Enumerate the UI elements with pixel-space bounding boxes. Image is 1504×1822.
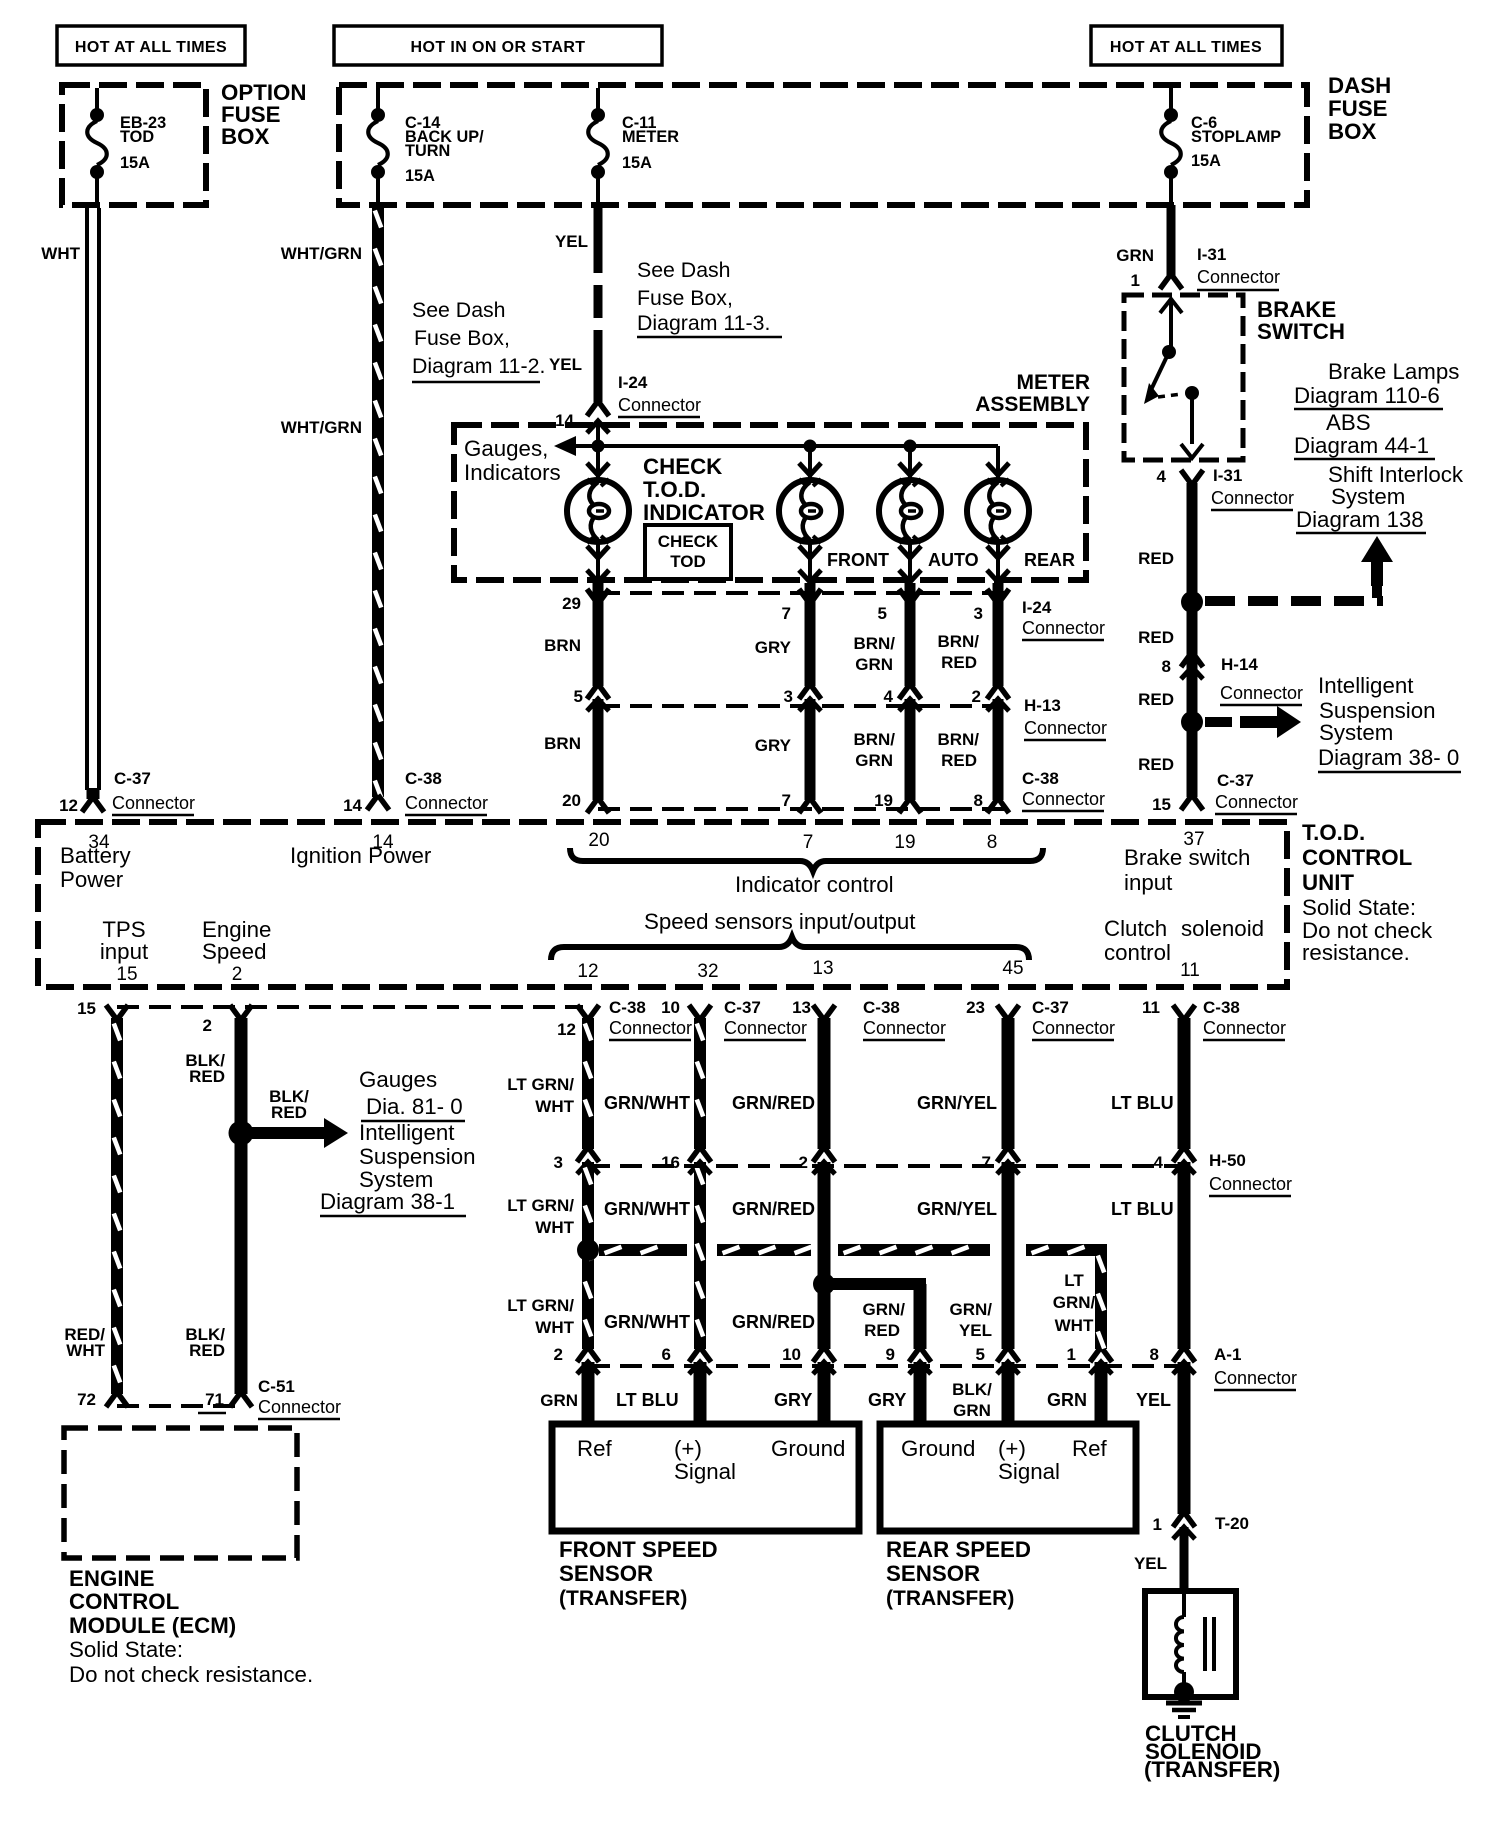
svg-text:C-38: C-38: [1022, 769, 1059, 788]
svg-text:FUSE: FUSE: [1328, 96, 1387, 121]
svg-text:TURN: TURN: [405, 142, 450, 160]
svg-text:WHT/GRN: WHT/GRN: [281, 244, 362, 263]
svg-text:C-37: C-37: [1032, 998, 1069, 1017]
svg-text:5: 5: [574, 687, 583, 706]
svg-text:4: 4: [1157, 467, 1167, 486]
svg-text:15: 15: [1152, 795, 1171, 814]
svg-text:7: 7: [782, 604, 791, 623]
svg-text:AUTO: AUTO: [928, 550, 979, 570]
svg-text:7: 7: [982, 1153, 991, 1172]
svg-text:Signal: Signal: [674, 1459, 736, 1484]
svg-text:2: 2: [554, 1345, 563, 1364]
svg-text:BRN: BRN: [544, 636, 581, 655]
svg-text:4: 4: [884, 687, 894, 706]
svg-text:Connector: Connector: [1215, 792, 1298, 812]
svg-text:20: 20: [588, 830, 609, 851]
svg-text:1: 1: [1131, 271, 1140, 290]
svg-text:8: 8: [987, 832, 998, 853]
svg-text:19: 19: [894, 832, 915, 853]
svg-text:REAR: REAR: [1024, 550, 1075, 570]
svg-text:control: control: [1104, 940, 1171, 965]
svg-text:C-51: C-51: [258, 1377, 295, 1396]
svg-text:FRONT SPEED: FRONT SPEED: [559, 1537, 718, 1562]
svg-text:LT: LT: [1064, 1271, 1084, 1290]
svg-text:FRONT: FRONT: [827, 550, 889, 570]
svg-text:Diagram 110-6: Diagram 110-6: [1294, 383, 1440, 408]
svg-text:GRN/RED: GRN/RED: [732, 1093, 815, 1113]
svg-text:(TRANSFER): (TRANSFER): [559, 1587, 687, 1610]
svg-text:GRY: GRY: [755, 638, 792, 657]
svg-text:CHECK: CHECK: [658, 532, 719, 551]
svg-text:Brake switch: Brake switch: [1124, 845, 1250, 870]
svg-text:5: 5: [976, 1345, 985, 1364]
svg-text:C-38: C-38: [863, 998, 900, 1017]
svg-text:45: 45: [1002, 958, 1023, 979]
svg-text:Connector: Connector: [258, 1397, 341, 1417]
svg-text:1: 1: [1153, 1515, 1162, 1534]
svg-text:Connector: Connector: [1022, 789, 1105, 809]
svg-text:Connector: Connector: [112, 793, 195, 813]
svg-text:4: 4: [1154, 1153, 1164, 1172]
svg-text:C-37: C-37: [724, 998, 761, 1017]
svg-text:Solid State:: Solid State:: [1302, 895, 1416, 920]
svg-text:6: 6: [662, 1345, 671, 1364]
svg-text:GRY: GRY: [868, 1390, 906, 1410]
svg-text:WHT: WHT: [535, 1318, 574, 1337]
svg-text:INDICATOR: INDICATOR: [643, 500, 765, 525]
svg-text:Intelligent: Intelligent: [359, 1120, 455, 1145]
svg-text:Gauges: Gauges: [359, 1067, 437, 1092]
svg-text:UNIT: UNIT: [1302, 870, 1354, 895]
svg-text:I-31: I-31: [1197, 245, 1226, 264]
svg-text:GRN/: GRN/: [950, 1300, 993, 1319]
svg-text:BRN/: BRN/: [937, 730, 979, 749]
svg-text:I-24: I-24: [1022, 598, 1052, 617]
svg-text:C-37: C-37: [1217, 771, 1254, 790]
svg-text:(+): (+): [674, 1436, 702, 1461]
svg-text:29: 29: [562, 594, 581, 613]
svg-text:GRN: GRN: [1047, 1390, 1087, 1410]
svg-text:15A: 15A: [622, 154, 652, 172]
svg-text:2: 2: [972, 687, 981, 706]
svg-text:ASSEMBLY: ASSEMBLY: [975, 393, 1090, 416]
svg-text:solenoid: solenoid: [1181, 916, 1264, 941]
svg-text:(TRANSFER): (TRANSFER): [1144, 1757, 1280, 1782]
svg-text:CHECK: CHECK: [643, 454, 722, 479]
svg-text:HOT AT ALL TIMES: HOT AT ALL TIMES: [1110, 39, 1262, 56]
svg-text:ENGINE: ENGINE: [69, 1566, 155, 1591]
svg-text:Connector: Connector: [1022, 618, 1105, 638]
svg-text:5: 5: [878, 604, 887, 623]
svg-text:15: 15: [77, 999, 96, 1018]
svg-text:Connector: Connector: [609, 1018, 692, 1038]
svg-text:11: 11: [1180, 960, 1200, 981]
svg-text:BOX: BOX: [221, 124, 269, 149]
svg-text:7: 7: [803, 832, 814, 853]
svg-text:2: 2: [203, 1016, 212, 1035]
svg-text:BRN: BRN: [544, 734, 581, 753]
svg-text:H-13: H-13: [1024, 696, 1061, 715]
svg-text:GRN/WHT: GRN/WHT: [604, 1199, 690, 1219]
svg-text:T.O.D.: T.O.D.: [643, 477, 706, 502]
svg-text:GRN/YEL: GRN/YEL: [917, 1199, 997, 1219]
svg-text:STOPLAMP: STOPLAMP: [1191, 128, 1281, 146]
svg-text:3: 3: [554, 1153, 563, 1172]
svg-text:LT GRN/: LT GRN/: [507, 1296, 574, 1315]
svg-text:Brake Lamps: Brake Lamps: [1328, 359, 1459, 384]
svg-text:14: 14: [343, 796, 362, 815]
svg-text:13: 13: [792, 998, 811, 1017]
svg-text:WHT: WHT: [535, 1097, 574, 1116]
svg-text:YEL: YEL: [959, 1321, 992, 1340]
svg-text:Speed sensors input/output: Speed sensors input/output: [644, 909, 916, 934]
svg-text:Fuse Box,: Fuse Box,: [414, 326, 510, 350]
svg-text:Signal: Signal: [998, 1459, 1060, 1484]
svg-text:RED: RED: [1138, 755, 1174, 774]
svg-text:GRY: GRY: [774, 1390, 812, 1410]
svg-text:RED: RED: [864, 1321, 900, 1340]
svg-text:Connector: Connector: [863, 1018, 946, 1038]
svg-text:Diagram 44-1: Diagram 44-1: [1294, 433, 1429, 458]
svg-text:BOX: BOX: [1328, 119, 1376, 144]
svg-text:LT GRN/: LT GRN/: [507, 1196, 574, 1215]
svg-text:Diagram 38-1: Diagram 38-1: [320, 1189, 455, 1214]
svg-text:MODULE (ECM): MODULE (ECM): [69, 1613, 236, 1638]
svg-text:I-31: I-31: [1213, 466, 1242, 485]
svg-text:Clutch: Clutch: [1104, 916, 1167, 941]
svg-text:RED: RED: [1138, 628, 1174, 647]
svg-text:Speed: Speed: [202, 939, 266, 964]
svg-text:Power: Power: [60, 867, 124, 892]
svg-text:8: 8: [974, 791, 983, 810]
svg-text:12: 12: [557, 1020, 576, 1039]
svg-text:Battery: Battery: [60, 843, 131, 868]
svg-text:See Dash: See Dash: [412, 298, 506, 322]
svg-text:GRN/YEL: GRN/YEL: [917, 1093, 997, 1113]
svg-text:(TRANSFER): (TRANSFER): [886, 1587, 1014, 1610]
svg-text:YEL: YEL: [555, 232, 588, 251]
svg-text:SWITCH: SWITCH: [1257, 319, 1345, 344]
svg-text:23: 23: [966, 998, 985, 1017]
svg-text:9: 9: [886, 1345, 895, 1364]
svg-text:Ground: Ground: [901, 1436, 975, 1461]
svg-text:A-1: A-1: [1214, 1345, 1241, 1364]
svg-text:Intelligent: Intelligent: [1318, 673, 1414, 698]
svg-text:8: 8: [1150, 1345, 1159, 1364]
svg-text:12: 12: [577, 961, 598, 982]
svg-text:15: 15: [116, 964, 137, 985]
svg-text:3: 3: [974, 604, 983, 623]
svg-text:1: 1: [1067, 1345, 1076, 1364]
svg-text:10: 10: [782, 1345, 801, 1364]
svg-text:SENSOR: SENSOR: [886, 1561, 980, 1586]
svg-text:SENSOR: SENSOR: [559, 1561, 653, 1586]
svg-text:Connector: Connector: [618, 395, 701, 415]
svg-text:C-38: C-38: [1203, 998, 1240, 1017]
svg-text:input: input: [1124, 870, 1173, 895]
svg-text:GRN/RED: GRN/RED: [732, 1199, 815, 1219]
svg-text:Indicators: Indicators: [464, 460, 561, 485]
svg-text:CONTROL: CONTROL: [1302, 845, 1412, 870]
svg-text:15A: 15A: [120, 154, 150, 172]
svg-text:GRN/: GRN/: [863, 1300, 906, 1319]
svg-text:BRN/: BRN/: [937, 632, 979, 651]
svg-text:Diagram 11-3.: Diagram 11-3.: [637, 311, 770, 335]
svg-text:resistance.: resistance.: [1302, 940, 1410, 965]
svg-text:11: 11: [1142, 998, 1160, 1017]
svg-text:WHT/GRN: WHT/GRN: [281, 418, 362, 437]
svg-text:GRN: GRN: [855, 655, 893, 674]
svg-text:ABS: ABS: [1326, 410, 1371, 435]
svg-text:Ground: Ground: [771, 1436, 845, 1461]
svg-text:32: 32: [697, 961, 718, 982]
svg-text:HOT IN ON OR START: HOT IN ON OR START: [411, 39, 586, 56]
svg-text:Diagram 11-2.: Diagram 11-2.: [412, 354, 545, 378]
svg-text:10: 10: [661, 998, 680, 1017]
svg-text:RED: RED: [189, 1067, 225, 1086]
svg-text:20: 20: [562, 791, 581, 810]
svg-text:Connector: Connector: [724, 1018, 807, 1038]
svg-text:GRN: GRN: [540, 1391, 578, 1410]
svg-text:RED: RED: [941, 751, 977, 770]
svg-text:REAR SPEED: REAR SPEED: [886, 1537, 1031, 1562]
svg-text:19: 19: [874, 791, 893, 810]
svg-text:WHT: WHT: [1055, 1316, 1094, 1335]
svg-text:Suspension: Suspension: [359, 1144, 476, 1169]
svg-text:Connector: Connector: [1032, 1018, 1115, 1038]
svg-text:Do not check resistance.: Do not check resistance.: [69, 1662, 313, 1687]
svg-text:GRN/: GRN/: [1053, 1293, 1096, 1312]
svg-text:Ignition Power: Ignition Power: [290, 843, 432, 868]
svg-text:WHT: WHT: [66, 1341, 105, 1360]
svg-text:Connector: Connector: [1203, 1018, 1286, 1038]
svg-text:7: 7: [782, 791, 791, 810]
svg-text:GRN: GRN: [953, 1401, 991, 1420]
svg-text:BRN/: BRN/: [853, 730, 895, 749]
svg-text:8: 8: [1162, 657, 1171, 676]
svg-text:15A: 15A: [1191, 152, 1221, 170]
svg-text:C-37: C-37: [114, 769, 151, 788]
svg-text:GRN: GRN: [855, 751, 893, 770]
svg-text:72: 72: [77, 1390, 96, 1409]
svg-text:METER: METER: [1017, 371, 1091, 394]
svg-text:Connector: Connector: [1197, 267, 1280, 287]
svg-text:GRN/WHT: GRN/WHT: [604, 1312, 690, 1332]
svg-text:YEL: YEL: [1136, 1390, 1171, 1410]
svg-text:Diagram 38- 0: Diagram 38- 0: [1318, 745, 1459, 770]
svg-text:RED: RED: [271, 1103, 307, 1122]
svg-text:12: 12: [59, 796, 78, 815]
svg-text:WHT: WHT: [535, 1218, 574, 1237]
svg-text:3: 3: [784, 687, 793, 706]
svg-text:GRN: GRN: [1116, 246, 1154, 265]
svg-text:TOD: TOD: [120, 128, 154, 146]
svg-text:TOD: TOD: [670, 552, 706, 571]
svg-text:Solid State:: Solid State:: [69, 1637, 183, 1662]
svg-text:Gauges,: Gauges,: [464, 436, 548, 461]
svg-text:Connector: Connector: [405, 793, 488, 813]
svg-text:H-50: H-50: [1209, 1151, 1246, 1170]
svg-text:2: 2: [232, 964, 243, 985]
svg-text:CONTROL: CONTROL: [69, 1589, 179, 1614]
svg-text:GRY: GRY: [755, 736, 792, 755]
svg-text:RED: RED: [189, 1341, 225, 1360]
svg-text:T-20: T-20: [1215, 1514, 1249, 1533]
svg-text:LT BLU: LT BLU: [1111, 1199, 1174, 1219]
svg-text:Connector: Connector: [1214, 1368, 1297, 1388]
svg-text:METER: METER: [622, 128, 679, 146]
svg-text:See Dash: See Dash: [637, 258, 731, 282]
svg-text:Connector: Connector: [1220, 683, 1303, 703]
svg-text:LT GRN/: LT GRN/: [507, 1075, 574, 1094]
svg-text:2: 2: [799, 1153, 808, 1172]
svg-text:BLK/: BLK/: [952, 1380, 992, 1399]
svg-text:RED: RED: [941, 653, 977, 672]
svg-text:input: input: [100, 939, 149, 964]
svg-text:C-38: C-38: [609, 998, 646, 1017]
svg-text:13: 13: [812, 958, 833, 979]
svg-text:T.O.D.: T.O.D.: [1302, 820, 1365, 845]
svg-text:System: System: [1319, 720, 1393, 745]
svg-text:Fuse Box,: Fuse Box,: [637, 286, 733, 310]
svg-text:GRN/RED: GRN/RED: [732, 1312, 815, 1332]
svg-text:H-14: H-14: [1221, 655, 1258, 674]
svg-text:YEL: YEL: [549, 355, 582, 374]
svg-text:Connector: Connector: [1211, 488, 1294, 508]
svg-text:YEL: YEL: [1134, 1554, 1167, 1573]
svg-text:HOT AT ALL TIMES: HOT AT ALL TIMES: [75, 39, 227, 56]
svg-text:WHT: WHT: [41, 244, 80, 263]
svg-text:Diagram 138: Diagram 138: [1296, 507, 1424, 532]
svg-text:C-38: C-38: [405, 769, 442, 788]
svg-text:LT BLU: LT BLU: [1111, 1093, 1174, 1113]
svg-text:GRN/WHT: GRN/WHT: [604, 1093, 690, 1113]
svg-text:Dia. 81- 0: Dia. 81- 0: [366, 1094, 463, 1119]
svg-text:BRN/: BRN/: [853, 634, 895, 653]
svg-text:15A: 15A: [405, 167, 435, 185]
svg-text:Ref: Ref: [1072, 1436, 1108, 1461]
svg-text:RED: RED: [1138, 690, 1174, 709]
svg-text:RED: RED: [1138, 549, 1174, 568]
svg-text:LT BLU: LT BLU: [616, 1390, 679, 1410]
svg-text:DASH: DASH: [1328, 73, 1391, 98]
svg-text:Ref: Ref: [577, 1436, 613, 1461]
svg-text:I-24: I-24: [618, 373, 648, 392]
svg-text:(+): (+): [998, 1436, 1026, 1461]
svg-text:System: System: [1331, 484, 1405, 509]
svg-text:16: 16: [661, 1153, 680, 1172]
svg-text:Connector: Connector: [1209, 1174, 1292, 1194]
svg-text:Connector: Connector: [1024, 718, 1107, 738]
